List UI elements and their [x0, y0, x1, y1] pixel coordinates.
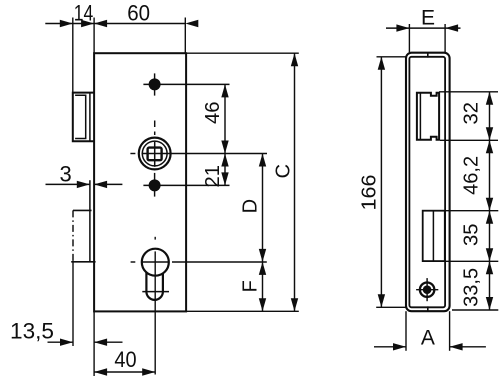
40 arrows [94, 368, 107, 375]
screw hole ring [420, 283, 434, 297]
extension lines top dims [72, 18, 74, 93]
A dim extensions [405, 311, 407, 351]
spindle hub outer circle [139, 138, 171, 170]
faceplate outer outline [406, 53, 450, 312]
E dim extensions [408, 24, 410, 52]
46 arrows [221, 84, 228, 97]
spindle hub centerline vertical dashes [154, 121, 156, 128]
svg-text:3: 3 [59, 161, 71, 186]
lower fixing hole crosshair [154, 173, 156, 197]
166 arrows [378, 57, 385, 70]
svg-text:21: 21 [202, 165, 224, 188]
dim 3 left arrow line [46, 183, 90, 185]
svg-text:40: 40 [114, 347, 136, 372]
166 top extension [377, 56, 407, 58]
screw hole crosshair [416, 289, 438, 291]
svg-text:D: D [240, 199, 262, 213]
dim 13,5 lines [48, 341, 74, 343]
dim A left arrow line [374, 346, 406, 348]
cylinder center extension to D/F dims [172, 261, 267, 263]
svg-text:E: E [421, 7, 435, 30]
3 arrows [77, 181, 90, 188]
svg-text:13,5: 13,5 [10, 318, 54, 343]
latch inner line [419, 93, 421, 140]
D arrows [259, 154, 266, 167]
euro cylinder circle [142, 249, 169, 276]
svg-text:46,2: 46,2 [460, 156, 482, 195]
dim line F vertical [262, 262, 264, 311]
top fixing hole crosshair [154, 73, 156, 95]
cutout bottom extension [445, 260, 499, 262]
lower guide box bottom edge [71, 261, 95, 263]
dim line 166 vertical [380, 57, 382, 307]
35 arrows [486, 211, 493, 224]
body bottom edge extension to C [186, 310, 299, 312]
faceplate inner outline [409, 57, 445, 307]
dim A right arrow line [450, 346, 486, 348]
cylinder centerline horizontal [131, 261, 136, 263]
cylinder centerline vertical [154, 237, 156, 240]
lower fixing hole [149, 179, 161, 191]
C arrows [291, 53, 298, 66]
part bottom extension right [452, 309, 498, 311]
E arrows [396, 24, 409, 31]
svg-text:A: A [421, 327, 435, 350]
faceplate front line upper segment [89, 93, 91, 142]
body top edge extension to C [186, 52, 299, 54]
right column dim line [489, 92, 491, 310]
extension line down from guide box to 13,5 dim [72, 262, 74, 346]
svg-text:35: 35 [460, 223, 482, 246]
svg-text:14: 14 [74, 1, 94, 26]
svg-text:F: F [239, 280, 261, 292]
svg-text:33,5: 33,5 [460, 268, 482, 307]
60 arrows [94, 20, 107, 27]
bottom center tick [427, 306, 429, 312]
lower guide box top edge [73, 209, 92, 211]
screw hole center [423, 285, 432, 294]
A arrows [393, 343, 406, 350]
spindle hub inner circle [142, 141, 167, 166]
cutout top extension [445, 210, 499, 212]
latch bolt inner step [75, 95, 86, 138]
46,2 arrows [486, 140, 493, 153]
deadbolt cutout [423, 211, 445, 261]
dim 3 right arrow line [94, 183, 122, 185]
33,5 arrows [486, 261, 493, 274]
dim line 14 [45, 23, 94, 25]
lower guide box chain left edge [72, 210, 74, 261]
dim line 46/21 vertical [224, 84, 226, 185]
latch bolt front view [417, 93, 439, 140]
stem bottom arc center tick [142, 291, 169, 293]
svg-text:166: 166 [359, 175, 381, 211]
14 arrows [60, 20, 73, 27]
top fixing hole [149, 78, 161, 90]
deadbolt cutout inner line [432, 211, 434, 261]
166 bottom extension [376, 306, 406, 308]
euro cylinder stem [146, 272, 163, 300]
13,5 arrows [60, 339, 73, 346]
svg-text:46: 46 [202, 101, 224, 124]
top center tick [427, 52, 429, 58]
latch bottom extension [440, 139, 498, 141]
faceplate front line lower segment [89, 180, 91, 262]
F arrows [259, 262, 266, 275]
lock body outline (left view) [94, 53, 186, 311]
svg-text:C: C [272, 164, 294, 178]
extension body bottom left down [93, 311, 95, 376]
svg-text:32: 32 [460, 102, 482, 125]
32 arrows [486, 92, 493, 105]
dim line E [386, 27, 461, 29]
latch top extension [439, 91, 498, 93]
latch bolt (left view) [73, 93, 94, 142]
dim line 60 [94, 23, 185, 25]
dim line C vertical [294, 53, 296, 311]
21 arrows [221, 154, 228, 167]
spindle hub centerline horizontal [130, 153, 135, 155]
spindle square hole [148, 148, 162, 161]
dim line 40 [94, 371, 155, 373]
svg-text:60: 60 [127, 1, 150, 26]
dim line D vertical [262, 154, 264, 262]
